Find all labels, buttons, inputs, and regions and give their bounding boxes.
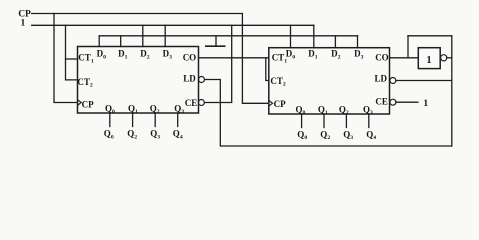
wire top right horizontal (408, 35, 452, 37)
wire gnd to U1 D0 (98, 36, 100, 47)
wire ground bus (99, 35, 357, 37)
svg-text:LD: LD (375, 74, 388, 84)
svg-text:D0: D0 (97, 49, 107, 61)
svg-text:CE: CE (185, 98, 198, 108)
pin U1 Q0 (109, 113, 111, 127)
node CP label (18, 10, 31, 20)
wire CP drop to U1 CP pin (54, 14, 78, 103)
svg-text:D2: D2 (140, 49, 150, 61)
svg-text:Q3: Q3 (343, 129, 353, 141)
svg-text:Q1: Q1 (128, 103, 138, 115)
svg-text:Q2: Q2 (339, 104, 349, 116)
svg-text:Q1: Q1 (318, 104, 328, 116)
svg-text:CT1: CT1 (78, 53, 94, 65)
svg-text:CP: CP (274, 99, 286, 109)
pin U2 Q2 (345, 114, 347, 128)
svg-text:D2: D2 (331, 49, 341, 61)
bubble U1 LD (199, 77, 205, 83)
wire gnd to U2 D3 (corner end) (357, 36, 359, 48)
wire U1 LD to bottom feedback (205, 80, 452, 147)
wire 1 to U1 CT1 and CT2 (66, 25, 78, 80)
svg-text:CO: CO (183, 53, 197, 63)
wire branch to U2 CT2 (266, 58, 269, 81)
wire 1 to U1 D3 (164, 25, 166, 46)
svg-text:D3: D3 (354, 49, 364, 61)
svg-text:1: 1 (426, 55, 431, 66)
wire gnd to U2 D2 (334, 36, 336, 48)
counter U1 body (78, 47, 199, 114)
ground symbol (206, 36, 225, 46)
U1 clock wedge (78, 100, 82, 106)
svg-text:CP: CP (82, 99, 94, 109)
svg-text:LD: LD (183, 74, 196, 84)
wire 1 to U2 D0 (290, 25, 292, 47)
pin U1 Q2 (154, 113, 156, 127)
svg-text:Q0: Q0 (296, 104, 306, 116)
counter U2 body (269, 48, 390, 114)
svg-text:Q2: Q2 (320, 129, 330, 141)
pin U1 Q1 (132, 113, 134, 127)
pin U1 Q3 (177, 113, 179, 127)
wire 1 to U1 CE (204, 25, 231, 102)
svg-text:Q0: Q0 (105, 103, 115, 115)
svg-text:CT2: CT2 (77, 77, 93, 89)
svg-text:1: 1 (423, 99, 428, 109)
bubble U1 CE (198, 100, 204, 106)
wire gnd to U1 D1 (120, 36, 122, 47)
svg-text:Q3: Q3 (174, 103, 184, 115)
wire CP drop to U2 CP pin (242, 14, 268, 104)
inverter G1 label (426, 55, 431, 66)
svg-text:D0: D0 (286, 49, 296, 61)
U2 clock wedge (269, 101, 273, 107)
wire 1 to U2 D1 (corner end) (313, 25, 315, 47)
pin U2 Q1 (323, 114, 325, 128)
wire U2 LD to feedback (396, 80, 452, 82)
svg-text:Q4: Q4 (173, 129, 183, 141)
wire G1 output (447, 57, 452, 59)
svg-text:Q0: Q0 (104, 129, 114, 141)
node 1 at U2 CE (423, 99, 428, 109)
pin U2 Q3 (368, 114, 370, 128)
wire logic-1 horizontal top (32, 24, 314, 26)
svg-text:D3: D3 (163, 49, 173, 61)
svg-text:Q3: Q3 (150, 129, 160, 141)
bubble G1 output (441, 55, 447, 61)
wire U1 CT1 branch (66, 58, 78, 60)
svg-text:CE: CE (375, 96, 388, 106)
svg-text:CO: CO (375, 52, 389, 62)
wire U2 CO to inverter input (390, 57, 419, 59)
pin U2 Q0 (301, 114, 303, 128)
svg-text:1: 1 (21, 19, 26, 29)
wire 1 to U1 D2 (142, 25, 144, 46)
wire CO riser (407, 36, 409, 58)
svg-text:Q4: Q4 (366, 129, 376, 141)
wire U2 CE to 1 (396, 101, 418, 103)
wire CP horizontal top (32, 13, 243, 15)
wire U1 CO to U2 CT1 (199, 57, 269, 59)
svg-text:Q3: Q3 (363, 104, 373, 116)
svg-text:Q2: Q2 (150, 103, 160, 115)
bubble U2 CE (390, 99, 396, 105)
svg-text:CT2: CT2 (270, 76, 286, 88)
svg-text:D1: D1 (308, 49, 318, 61)
wire right vertical feedback (451, 36, 453, 146)
node 1 label (21, 19, 26, 29)
svg-text:D1: D1 (118, 49, 128, 61)
svg-text:Q2: Q2 (127, 129, 137, 141)
inverter G1 body (418, 48, 440, 69)
svg-text:Q0: Q0 (297, 129, 307, 141)
bubble U2 LD (390, 78, 396, 84)
